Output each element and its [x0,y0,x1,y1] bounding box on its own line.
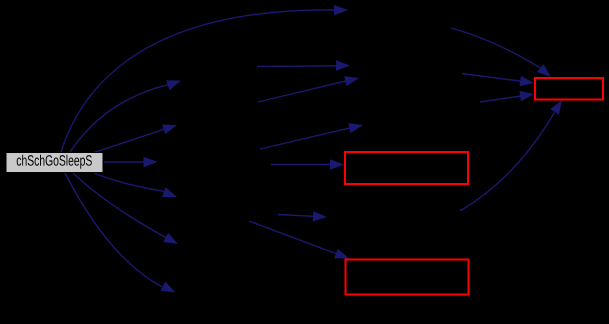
wire chSchGoSleepS to node C [94,125,177,153]
wire node A to red box N (upper arc) [451,28,551,77]
wire node D to red box K [271,159,344,169]
wire chSchGoSleepS to node B [70,80,181,152]
red box K (truncated node) [345,152,468,184]
wire node F to red box M [249,221,349,259]
wire chSchGoSleepS to node D [104,157,158,167]
wire chSchGoSleepS to node A (top arc) [61,5,348,152]
wire chSchGoSleepS to node F [73,173,178,244]
node chSchGoSleepS [6,153,103,173]
wire chSchGoSleepS to node E [94,173,177,197]
red box N (truncated node) [535,78,603,100]
wire node B to node H [257,60,350,70]
wire node C to node I [258,76,359,102]
wire node L to red box N (lower arc) [460,100,562,211]
wire node C to node J [260,123,363,149]
wire chSchGoSleepS to node G (bottom arc) [65,173,176,293]
wire node J to red box N [480,91,534,102]
red box M (truncated node) [346,260,469,295]
wire node E to node L [278,211,327,221]
wire node I to red box N [462,74,534,87]
